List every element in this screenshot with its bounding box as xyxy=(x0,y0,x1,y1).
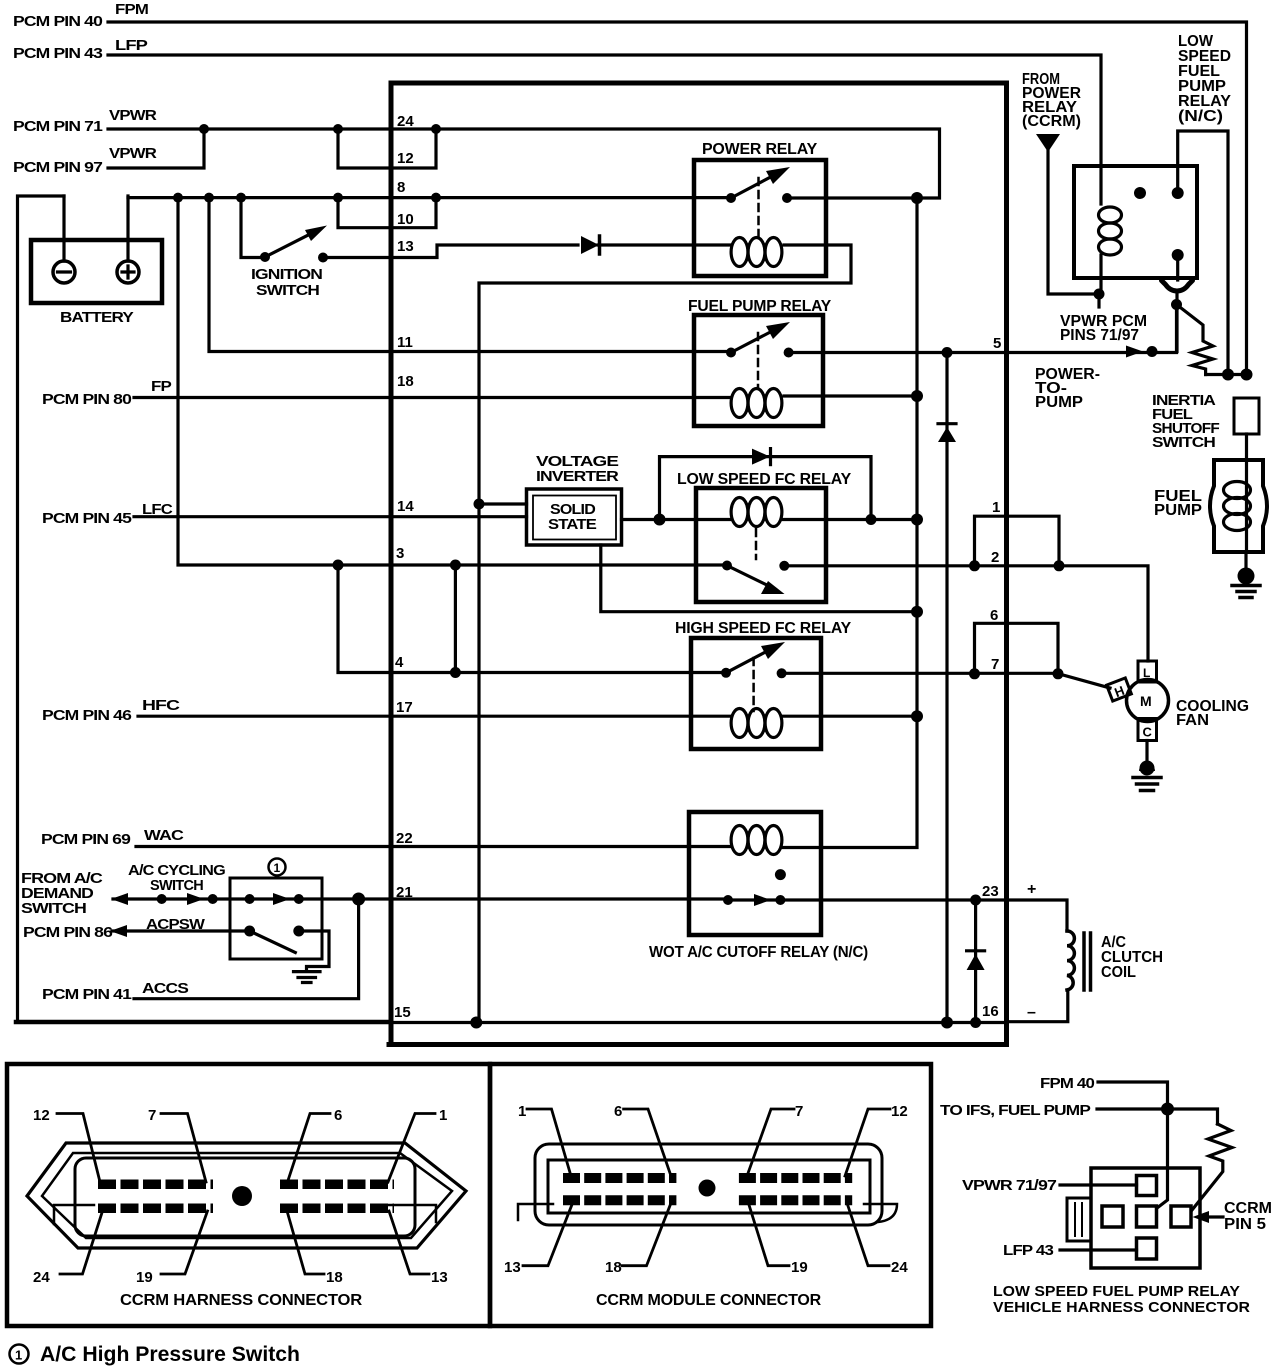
net FP label xyxy=(151,379,172,395)
wire K6 lower contact down to N/C cup xyxy=(1176,255,1179,280)
low speed FC relay right contact xyxy=(779,561,789,571)
fuel pump relay K2 box xyxy=(694,315,823,426)
svg-text:STATE: STATE xyxy=(548,517,597,533)
PCM driver bus vertical x917 xyxy=(821,198,917,848)
svg-text:M: M xyxy=(1140,693,1152,709)
wire pin 2 row: low speed contact to cooling fan L terminal xyxy=(784,566,1148,661)
WOT relay label xyxy=(649,944,868,961)
wire pin 7 row: high speed contact to fan H terminal xyxy=(782,673,1110,688)
junction dot pin15 row x476 xyxy=(470,1017,482,1029)
svg-text:CCRM HARNESS CONNECTOR: CCRM HARNESS CONNECTOR xyxy=(120,1292,363,1309)
net ACCS label xyxy=(142,981,189,997)
wire lower contact to ground xyxy=(299,931,329,971)
junction dot pin3 row x338 xyxy=(333,560,344,571)
net HFC label xyxy=(142,698,181,714)
pin 10 label xyxy=(397,211,414,228)
junction dot pin16 row diode xyxy=(970,1017,981,1028)
junction dot pin7 row x1058 xyxy=(1053,668,1064,679)
ignition switch label xyxy=(251,267,322,299)
svg-text:PCM PIN 80: PCM PIN 80 xyxy=(42,392,132,408)
harness pin 1 label + leader xyxy=(439,1107,447,1124)
junction dot pin2 row x1059 xyxy=(1054,560,1065,571)
svg-text:A/C CYCLING: A/C CYCLING xyxy=(128,863,225,879)
junction dot battery line x338 xyxy=(333,193,343,203)
svg-text:LFP 43: LFP 43 xyxy=(1003,1243,1054,1259)
ACPSW left arrowhead xyxy=(110,925,127,937)
svg-text:FPM: FPM xyxy=(115,2,149,18)
pin 21 label xyxy=(396,884,413,901)
svg-text:TO IFS, FUEL PUMP: TO IFS, FUEL PUMP xyxy=(940,1103,1091,1119)
wire LFC pin14 row to solid state xyxy=(134,515,527,518)
net FPM 40 label xyxy=(1040,1076,1095,1092)
circled 1 footnote marker xyxy=(10,1345,29,1364)
svg-text:6: 6 xyxy=(614,1103,622,1120)
node PCM PIN 40 label xyxy=(13,14,103,30)
node PCM PIN 41 label xyxy=(42,987,132,1003)
pin cavity mid-center (FPM) xyxy=(1137,1206,1157,1227)
svg-text:22: 22 xyxy=(396,830,413,847)
pin 17 label xyxy=(396,699,413,716)
harness connector right notch xyxy=(385,1205,436,1222)
svg-text:PCM PIN 46: PCM PIN 46 xyxy=(42,708,132,724)
svg-text:FROM A/C: FROM A/C xyxy=(21,871,103,887)
svg-text:+: + xyxy=(1027,881,1036,898)
junction dot power-to-pump right xyxy=(1147,346,1158,357)
ignition switch blade xyxy=(265,229,320,257)
svg-text:FAN: FAN xyxy=(1176,712,1209,729)
WOT relay right contact xyxy=(775,895,785,905)
svg-text:LFP: LFP xyxy=(115,38,148,54)
fuel pump relay blade xyxy=(731,327,780,353)
module connector face xyxy=(548,1160,870,1213)
high speed coil return to bus xyxy=(782,715,917,718)
wire solid state return to bus xyxy=(601,545,917,612)
power relay blade arrowhead xyxy=(766,167,790,184)
wire pin3 to pin4 branch x338 xyxy=(338,565,726,673)
high speed FC relay right contact xyxy=(777,668,787,678)
WOT relay N/C indicator dot xyxy=(775,869,786,880)
harness connector pin row bottom-left xyxy=(98,1203,213,1213)
pin cavity mid-right (CCRM pin 5) xyxy=(1171,1206,1191,1227)
wire FPM 40 to node xyxy=(1098,1082,1168,1109)
high speed FC relay K4 label xyxy=(675,620,852,637)
pin 24 label xyxy=(397,113,414,130)
outer boundary bottom edge (thick) xyxy=(16,1020,391,1025)
svg-text:SWITCH: SWITCH xyxy=(1152,435,1215,451)
svg-text:FPM 40: FPM 40 xyxy=(1040,1076,1095,1092)
junction dot demand line x212 xyxy=(208,894,218,904)
junction dot pin4 row x455 xyxy=(450,667,461,678)
connector latch tab xyxy=(1067,1198,1091,1241)
solid state text xyxy=(548,502,597,533)
wire VPWR pin97 joins pin71 line xyxy=(108,129,204,168)
wire pin 18 FP row to fuel pump relay coil xyxy=(391,396,731,399)
svg-text:BATTERY: BATTERY xyxy=(60,310,134,326)
pin 5 label xyxy=(993,335,1001,352)
svg-text:1: 1 xyxy=(992,499,1000,516)
junction dot cycling switch in xyxy=(245,894,255,904)
pin 7 label xyxy=(991,656,999,673)
module pin 24 label + leader xyxy=(891,1259,908,1276)
svg-text:FP: FP xyxy=(151,379,172,395)
pin 12 label xyxy=(397,150,414,167)
wire pin 23 row: WOT contact to A/C clutch coil xyxy=(780,900,1067,931)
wire FPM node down to center pin xyxy=(1157,1109,1168,1208)
ground symbol (cycling switch) xyxy=(294,972,321,983)
FROM POWER RELAY (CCRM) label xyxy=(1022,71,1081,130)
node PCM PIN 71 label xyxy=(13,119,103,135)
svg-text:18: 18 xyxy=(326,1269,343,1286)
wire LFP: PCM pin 43 to relay coil top xyxy=(108,55,1101,204)
K6 floating contact dot xyxy=(1134,187,1146,199)
power relay right contact xyxy=(782,193,792,203)
svg-text:WOT A/C CUTOFF RELAY (N/C): WOT A/C CUTOFF RELAY (N/C) xyxy=(649,944,868,961)
pin cavity bottom (LFP) xyxy=(1137,1238,1157,1259)
junction dot pin24 line x338 xyxy=(333,124,343,134)
wire solid state upper feed from power relay coil return xyxy=(479,502,527,505)
svg-text:PUMP: PUMP xyxy=(1154,502,1202,519)
svg-text:SOLID: SOLID xyxy=(550,502,595,518)
junction dot power relay output bus xyxy=(911,192,923,204)
module connector center key dot xyxy=(699,1180,716,1197)
svg-text:LOW SPEED FUEL PUMP RELAY: LOW SPEED FUEL PUMP RELAY xyxy=(993,1283,1240,1300)
K6 lower right contact dot xyxy=(1172,249,1184,261)
junction dot coil return bus x917 y396 xyxy=(911,390,923,402)
battery plus terminal xyxy=(117,261,139,283)
wire LFP 43 to pin xyxy=(1060,1248,1137,1251)
junction dot coil return node xyxy=(1094,289,1105,300)
A/C CLUTCH COIL label xyxy=(1101,934,1163,981)
junction dot pin24 line x436 xyxy=(431,124,441,134)
harness connector inner hexagon xyxy=(42,1153,452,1238)
wire TO IFS line to resistor xyxy=(1097,1109,1218,1124)
WOT relay blade arrowhead xyxy=(754,894,771,906)
wire fuel pump to ground xyxy=(1244,552,1247,568)
A/C clutch coil L1 humps xyxy=(1067,931,1074,990)
CCRM module connector outer frame box xyxy=(490,1064,931,1326)
CCRM PIN 5 label xyxy=(1224,1200,1272,1233)
wire K6 contact up and over to harness resistor xyxy=(1178,131,1228,375)
wire pin 21 row: demand switch through cycling switch to WOT contact xyxy=(113,897,728,900)
power-to-pump bus vertical x947 with diode xyxy=(945,353,948,1023)
svg-text:(CCRM): (CCRM) xyxy=(1022,113,1081,130)
svg-text:PCM PIN 43: PCM PIN 43 xyxy=(13,46,103,62)
fuel pump relay left contact xyxy=(726,348,736,358)
svg-text:12: 12 xyxy=(397,150,414,167)
low speed FC relay blade arrowhead xyxy=(761,581,785,594)
power relay coil loops xyxy=(731,238,748,267)
svg-text:2: 2 xyxy=(991,549,999,566)
pin 14 label xyxy=(397,498,414,515)
svg-text:HIGH SPEED FC RELAY: HIGH SPEED FC RELAY xyxy=(675,620,852,637)
cycling switch lower left contact xyxy=(244,926,255,937)
junction dot battery line x209 xyxy=(204,193,214,203)
junction dot FPM node xyxy=(1161,1103,1174,1116)
junction dot battery line x241 xyxy=(236,193,246,203)
low speed FC relay K3 label xyxy=(677,471,852,488)
harness pin 12 label + leader xyxy=(33,1107,50,1124)
harness pin 6 label + leader xyxy=(334,1107,342,1124)
ground bars (fuel pump) xyxy=(1232,586,1260,598)
WOT relay coil return (joins bus x917) xyxy=(782,846,821,849)
pin 16 label xyxy=(982,1003,999,1020)
net LFP label xyxy=(115,38,148,54)
svg-text:VPWR: VPWR xyxy=(109,146,157,162)
module connector left notch xyxy=(518,1204,553,1220)
junction dot demand line x161 xyxy=(157,894,167,904)
svg-text:POWER RELAY: POWER RELAY xyxy=(702,141,818,158)
harness connector pin row top-left xyxy=(98,1179,213,1189)
node PCM PIN 46 label xyxy=(42,708,132,724)
wire cup to power-to-pump node xyxy=(1175,291,1178,352)
node PCM PIN 97 label xyxy=(13,160,103,176)
junction dot diode loop at coil return xyxy=(866,514,877,525)
module pin 19 label + leader xyxy=(791,1259,808,1276)
high speed FC relay dashed actuator link xyxy=(752,658,755,711)
harness connector outer hexagon xyxy=(27,1143,466,1248)
junction dot VPWR pins71/97 xyxy=(199,124,209,134)
svg-text:13: 13 xyxy=(431,1269,448,1286)
wire link CCRM pins 8-10 xyxy=(338,198,436,228)
diode CR2 on bus x947 (pointing up) xyxy=(938,422,956,425)
svg-text:PUMP: PUMP xyxy=(1035,394,1083,411)
svg-text:13: 13 xyxy=(504,1259,521,1276)
high speed FC relay left contact xyxy=(721,668,731,678)
wire link CCRM pins 1-2 xyxy=(975,516,1060,566)
junction dot pin2 row x974 xyxy=(969,560,980,571)
junction dot x1228 y374 xyxy=(1222,369,1234,381)
pin 18 label xyxy=(397,373,414,390)
node PCM PIN 80 label xyxy=(42,392,132,408)
inertia fuel shutoff switch S3 box xyxy=(1234,398,1259,434)
svg-text:24: 24 xyxy=(891,1259,908,1276)
pin 23 label xyxy=(982,883,999,900)
svg-text:18: 18 xyxy=(605,1259,622,1276)
svg-text:SWITCH: SWITCH xyxy=(256,283,319,299)
module connector pin row bottom-right xyxy=(739,1195,852,1205)
harness pin 18 label + leader xyxy=(326,1269,343,1286)
net LFC label xyxy=(142,502,173,518)
N/C contact cup symbol xyxy=(1162,281,1193,292)
wire power-to-pump: relay output to CCRM pin 5 and inertia switch xyxy=(789,305,1177,353)
fuel pump relay dashed actuator link xyxy=(757,333,760,388)
svg-text:INVERTER: INVERTER xyxy=(536,469,619,485)
power relay left contact xyxy=(726,193,736,203)
svg-text:SWITCH: SWITCH xyxy=(21,901,86,917)
junction dot pin23 row diode tap xyxy=(970,895,981,906)
svg-text:PCM PIN 40: PCM PIN 40 xyxy=(13,14,103,30)
pin cavity top (VPWR) xyxy=(1137,1176,1157,1196)
junction dot pin3 row x455 xyxy=(450,560,461,571)
high speed FC relay blade xyxy=(726,647,775,673)
junction dot solid state return at bus xyxy=(911,606,923,618)
svg-text:PCM PIN 97: PCM PIN 97 xyxy=(13,160,103,176)
fuel pump coil loops xyxy=(1224,482,1251,499)
module connector pin row bottom-left xyxy=(563,1195,676,1205)
module pin 7 label + leader xyxy=(795,1103,803,1120)
svg-text:13: 13 xyxy=(397,238,414,255)
demand line left arrowhead xyxy=(111,893,128,905)
svg-text:PCM PIN 71: PCM PIN 71 xyxy=(13,119,103,135)
low speed FC relay K3 box xyxy=(696,488,826,602)
high speed FC relay K4 box xyxy=(691,638,821,749)
harness connector pin row bottom-right xyxy=(280,1203,394,1213)
ignition switch left contact xyxy=(260,252,270,262)
svg-text:PCM PIN 45: PCM PIN 45 xyxy=(42,511,132,527)
junction dot ACCS node xyxy=(352,893,365,906)
wire FP lead-in xyxy=(134,396,391,399)
wire resistor bottom to verticals xyxy=(1206,373,1248,376)
svg-text:VPWR: VPWR xyxy=(109,108,157,124)
node PCM PIN 69 label xyxy=(41,832,131,848)
module pin 1 label + leader xyxy=(518,1103,526,1120)
fuel pump relay right contact xyxy=(784,348,794,358)
low speed FC relay left contact xyxy=(722,561,732,571)
diode CR4 across clutch coil (pointing up) xyxy=(974,900,977,1023)
battery label xyxy=(60,310,134,326)
WOT relay closed blade xyxy=(728,898,780,901)
svg-text:8: 8 xyxy=(397,179,405,196)
low speed fuel pump relay K6 box xyxy=(1074,166,1197,278)
net ACPSW label xyxy=(146,917,205,933)
svg-text:6: 6 xyxy=(334,1107,342,1124)
low speed FC relay coil loops xyxy=(731,498,748,527)
wire coil-return drop x479 to pin15 row xyxy=(477,504,480,1023)
wire pin3 to pin4 link x455 xyxy=(454,565,457,673)
K6 upper right contact dot xyxy=(1172,187,1184,199)
pin cavity mid-left xyxy=(1102,1206,1123,1227)
LOW SPEED FUEL PUMP RELAY VEHICLE HARNESS CONNECTOR caption xyxy=(993,1283,1250,1316)
svg-text:19: 19 xyxy=(791,1259,808,1276)
wire diode to power relay coil xyxy=(598,243,694,246)
demand line arrowhead x204 xyxy=(187,893,204,905)
wire solid state output to low speed FC relay coil xyxy=(622,518,731,521)
node PCM PIN 43 label xyxy=(13,46,103,62)
net VPWR 71/97 label xyxy=(962,1178,1057,1194)
junction dot solid state output xyxy=(654,514,666,526)
LOW SPEED FUEL PUMP RELAY (N/C) label xyxy=(1178,33,1231,125)
svg-text:SWITCH: SWITCH xyxy=(150,878,203,894)
svg-text:PIN 5: PIN 5 xyxy=(1224,1216,1266,1233)
node PCM PIN 86 label xyxy=(23,925,113,941)
battery minus lead xyxy=(62,196,65,261)
voltage inverter label xyxy=(536,454,619,485)
pin 6 label xyxy=(990,607,998,624)
wire HFC pin17 row to high speed coil xyxy=(138,715,731,718)
FUEL PUMP label xyxy=(1154,488,1202,519)
wire free-wheel diode loop over low speed relay xyxy=(660,457,872,520)
svg-text:10: 10 xyxy=(397,211,414,228)
svg-text:5: 5 xyxy=(993,335,1001,352)
ground symbol (cooling fan): ball xyxy=(1140,761,1155,776)
svg-text:HFC: HFC xyxy=(142,698,181,714)
pin 4 label xyxy=(395,654,404,671)
POWER-TO-PUMP label xyxy=(1035,366,1100,411)
CCRM harness connector outer frame box xyxy=(7,1064,490,1326)
resistor R2 vertical zigzag xyxy=(1192,1124,1232,1210)
svg-text:PCM PIN 86: PCM PIN 86 xyxy=(23,925,113,941)
svg-text:ACCS: ACCS xyxy=(142,981,189,997)
svg-text:VOLTAGE: VOLTAGE xyxy=(536,454,619,470)
svg-text:12: 12 xyxy=(33,1107,50,1124)
A/C cycling switch S2 box xyxy=(230,878,322,959)
svg-text:14: 14 xyxy=(397,498,414,515)
wire clutch coil minus to pin 16 row xyxy=(1007,990,1068,1022)
net VPWR label (pin 97) xyxy=(109,146,157,162)
footnote A/C High Pressure Switch xyxy=(40,1343,300,1366)
battery plus lead xyxy=(126,196,129,261)
svg-text:DEMAND: DEMAND xyxy=(21,886,93,902)
svg-text:LOW SPEED FC RELAY: LOW SPEED FC RELAY xyxy=(677,471,852,488)
svg-text:23: 23 xyxy=(982,883,999,900)
harness connector left notch xyxy=(54,1205,94,1224)
pin 15 label xyxy=(394,1004,411,1021)
cooling fan L terminal box xyxy=(1138,661,1157,682)
fuel pump M1 body xyxy=(1210,460,1267,552)
module connector pin row top-left xyxy=(563,1173,676,1183)
svg-text:PINS 71/97: PINS 71/97 xyxy=(1060,327,1139,344)
WOT relay coil loops xyxy=(731,826,748,855)
harness connector center key dot xyxy=(232,1186,252,1206)
wire VPWR pin71 to CCRM pin 24 and power relay output xyxy=(108,129,940,198)
resistor R1 to fuel pump feed xyxy=(1177,305,1214,375)
junction dot coil return bus x917 y716 xyxy=(911,710,923,722)
svg-text:24: 24 xyxy=(33,1269,50,1286)
power relay dashed actuator link xyxy=(757,178,760,238)
fuel pump relay blade arrowhead xyxy=(766,322,790,339)
svg-text:PCM PIN 41: PCM PIN 41 xyxy=(42,987,132,1003)
INERTIA FUEL SHUTOFF SWITCH label xyxy=(1152,393,1220,451)
CCRM PIN 5 arrow xyxy=(1200,1215,1223,1218)
junction dot solid state feed xyxy=(474,499,485,510)
node PCM PIN 45 label xyxy=(42,511,132,527)
diode CR3 in loop (pointing right) xyxy=(752,449,770,465)
junction dot coil return bus x917 y519 xyxy=(911,514,923,526)
wire link CCRM pins 24-12 xyxy=(338,129,436,168)
left outer boundary wire xyxy=(18,196,65,1021)
svg-text:VPWR 71/97: VPWR 71/97 xyxy=(962,1178,1057,1194)
wire pin 11 row to fuel pump relay contact xyxy=(209,198,731,352)
A/C CYCLING SWITCH label xyxy=(128,863,225,894)
wire ignition to CCRM pin 13 xyxy=(323,245,578,258)
svg-text:1: 1 xyxy=(518,1103,526,1120)
svg-text:CCRM: CCRM xyxy=(1224,1200,1272,1217)
svg-text:19: 19 xyxy=(136,1269,153,1286)
svg-text:18: 18 xyxy=(397,373,414,390)
FROM A/C DEMAND SWITCH label xyxy=(21,871,103,917)
svg-text:C: C xyxy=(1143,725,1153,740)
pin 2 label xyxy=(991,549,999,566)
svg-text:FUEL PUMP RELAY: FUEL PUMP RELAY xyxy=(688,298,832,315)
voltage inverter U1 solid state box xyxy=(527,489,622,545)
power relay blade xyxy=(731,172,780,198)
junction dot cycling switch out xyxy=(294,894,304,904)
power-to-pump inline arrowhead xyxy=(1126,346,1143,358)
A/C clutch coil core bars xyxy=(1084,933,1091,990)
wire pin 15/16 ground row xyxy=(391,1021,1007,1024)
harness pin 19 label + leader xyxy=(136,1269,153,1286)
cycling switch lower blade xyxy=(250,931,296,953)
ground symbol (fuel pump): ball xyxy=(1238,568,1255,585)
circled 1 A/C high pressure switch marker xyxy=(269,859,286,876)
power relay K1 label xyxy=(702,141,818,158)
svg-text:24: 24 xyxy=(397,113,414,130)
svg-text:PCM PIN 69: PCM PIN 69 xyxy=(41,832,131,848)
battery minus terminal xyxy=(53,261,75,283)
svg-text:15: 15 xyxy=(394,1004,411,1021)
module pin 6 label + leader xyxy=(614,1103,622,1120)
wire from power relay to relay coil node xyxy=(1048,150,1099,294)
